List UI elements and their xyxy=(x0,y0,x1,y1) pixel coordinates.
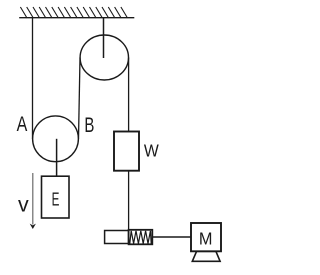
pulley lower xyxy=(33,116,79,162)
spring housing xyxy=(129,230,153,245)
pulley upper xyxy=(80,35,128,80)
motor base trapezoid xyxy=(192,251,220,261)
wire: upper pulley support from ceiling to hub xyxy=(103,18,105,58)
svg-text:B: B xyxy=(84,114,94,137)
velocity arrow head xyxy=(30,224,36,229)
velocity arrow v line xyxy=(32,173,34,225)
spring coil xyxy=(130,231,151,244)
svg-text:E: E xyxy=(52,188,60,209)
ceiling line xyxy=(19,17,134,19)
svg-text:A: A xyxy=(17,113,28,136)
svg-text:M: M xyxy=(199,228,213,248)
block on spring assembly xyxy=(105,231,129,244)
weight box E xyxy=(42,176,70,218)
wire: right rope from upper pulley to weight W xyxy=(128,58,130,132)
svg-text:W: W xyxy=(144,141,160,161)
wire: rope from lower pulley hub to weight E xyxy=(56,139,58,176)
motor M body xyxy=(191,223,221,251)
svg-text:v: v xyxy=(18,192,29,216)
wire: rope between lower pulley right and upper pulley left xyxy=(79,58,81,139)
wire: left rope from ceiling to lower pulley tangent xyxy=(32,18,34,139)
wire: link from spring to motor xyxy=(152,236,191,238)
ceiling hatching xyxy=(20,7,127,18)
weight box W xyxy=(114,132,139,171)
wire: rope from W down to spring block xyxy=(128,171,130,230)
